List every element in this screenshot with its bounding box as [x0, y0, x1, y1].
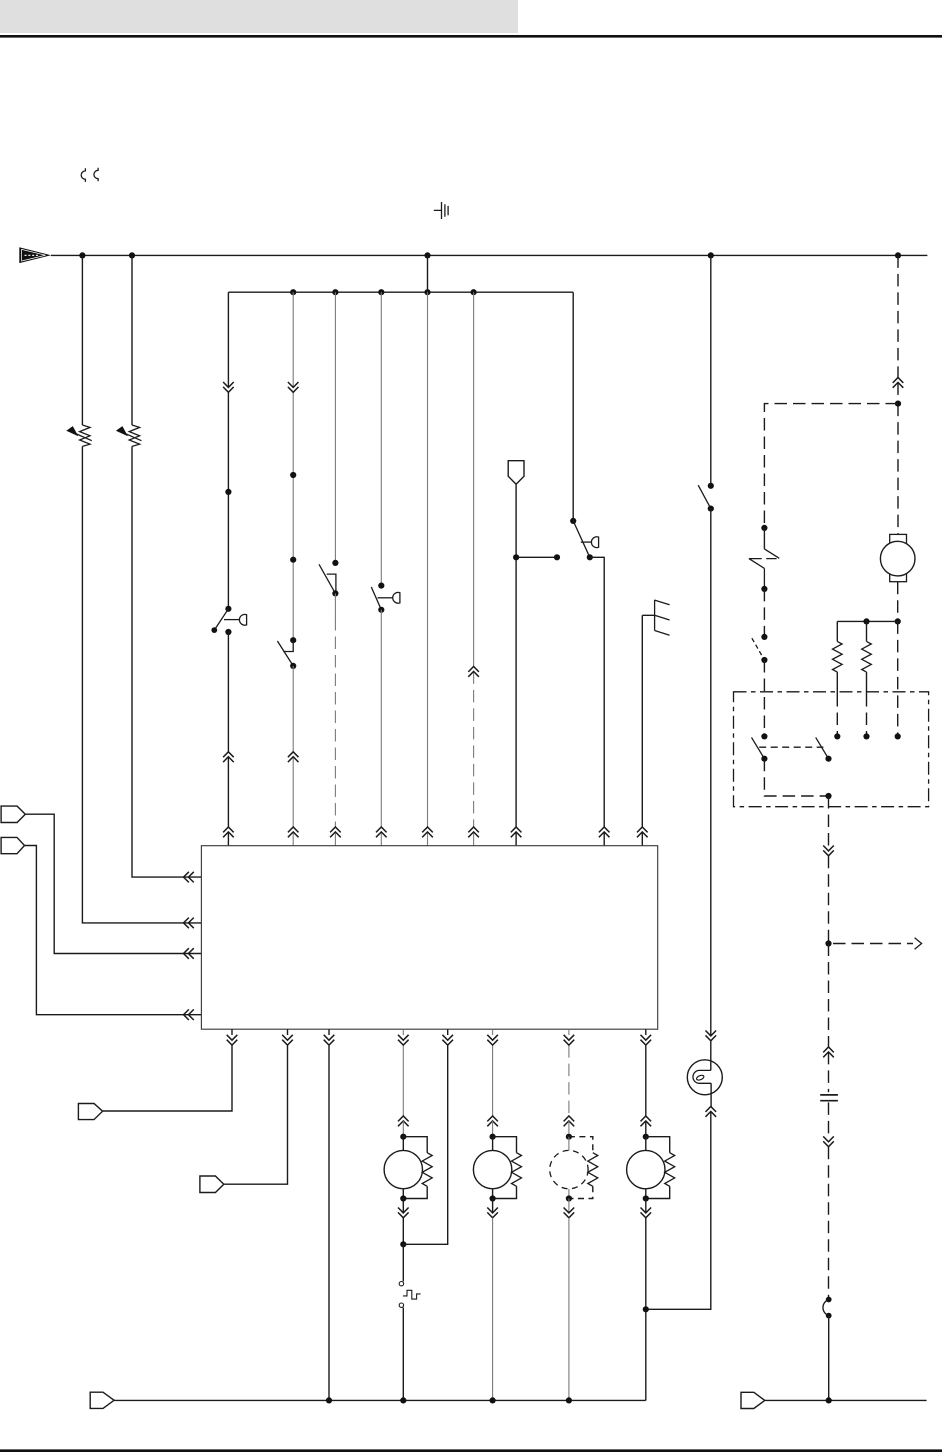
branch wire x381 lower — [380, 610, 382, 846]
junction dot x403 — [400, 1241, 406, 1247]
branch wire x335 upper — [334, 292, 336, 563]
connector chevron left row3 — [184, 948, 194, 959]
connector chevron up x381 — [376, 827, 387, 837]
resistor R2 — [862, 621, 872, 736]
motor V2 fresh air blower — [384, 1121, 432, 1202]
branch wire x335 lower dashed — [334, 593, 336, 845]
junction dots on second bus — [290, 289, 477, 295]
sensor branch wire x82 — [82, 255, 201, 923]
connector chevron up x427 — [422, 827, 433, 837]
wire x403 to junction — [402, 1218, 404, 1245]
connector chevrons up x228 — [223, 752, 234, 838]
output wire x329 — [328, 1029, 330, 1400]
resistor R1 — [833, 621, 843, 736]
branch wire x381 upper — [380, 292, 382, 585]
node dot below M5 — [895, 618, 901, 624]
linkage dashed — [759, 746, 823, 748]
junction dot bottom bus right — [826, 1397, 832, 1403]
dot x764 below breaker — [761, 586, 767, 592]
relay switch S8 — [752, 733, 768, 762]
ground symbol — [434, 202, 448, 219]
branch wire x573 from bus — [572, 292, 574, 521]
branch wire x228 upper — [227, 292, 229, 609]
top bus wire — [51, 254, 928, 256]
node dot relay out — [825, 793, 831, 799]
node dot x228 — [225, 489, 231, 495]
bottom bus left — [114, 1399, 646, 1401]
connector chevron up x604 — [599, 827, 610, 837]
connector plug P5 — [200, 1176, 224, 1193]
wire x711 to lamp — [710, 509, 712, 1071]
wire x828 to bottom bus — [828, 1316, 830, 1401]
connector plug P4 — [78, 1104, 102, 1120]
connector chevron down below motor V4 — [564, 1199, 575, 1218]
connector chevrons up x293 — [288, 752, 299, 838]
connector chevron down x329 — [324, 1035, 335, 1045]
connector chevron down x293 — [288, 382, 299, 392]
connector chevron down x228 — [223, 382, 234, 392]
connector chevrons up x473 — [468, 667, 479, 838]
junction dots on top bus — [79, 252, 901, 258]
branch wire x604 — [590, 557, 604, 845]
connector chevron down x492 — [487, 1035, 498, 1045]
connector plug P7 — [741, 1392, 765, 1408]
wire x645 to junction — [645, 1218, 647, 1401]
connector chevron up x492 — [487, 1116, 498, 1126]
branch wire x642 — [641, 615, 643, 845]
capacitor C1 — [820, 1095, 838, 1101]
motor V5 blower — [627, 1121, 675, 1202]
supply arrow terminal 30 — [19, 247, 51, 263]
connector chevron up x516 — [511, 827, 522, 837]
header bar — [0, 0, 518, 33]
fuse marker 1 — [81, 168, 85, 182]
connector chevron down below motor V2 — [398, 1199, 409, 1218]
wire x711 below lamp — [646, 1083, 711, 1309]
connector chevron down x287 — [282, 1035, 293, 1045]
dashed wire x898 into relay box — [897, 621, 899, 736]
pin dots in relay box — [834, 733, 901, 739]
sensor branch wire x132 — [132, 255, 201, 877]
switch S2 thermal contact — [277, 637, 296, 669]
connector chevron left row1 — [184, 872, 194, 883]
output wire x492 — [492, 1029, 494, 1116]
output wire x403 — [402, 1029, 404, 1116]
dashed wire below M5 — [897, 582, 899, 622]
lamp L1 — [687, 1060, 722, 1095]
connector chevron down x403 — [398, 1035, 409, 1045]
switch S5 pull contact — [570, 518, 598, 561]
dashed wire x764 into relay box — [763, 660, 765, 736]
output wire x568 dashed — [568, 1029, 570, 1116]
thermistor G1 — [66, 425, 92, 446]
connector chevron down x711 — [706, 1031, 717, 1041]
output wire x232 — [103, 1029, 232, 1111]
connector plug P3 — [508, 461, 524, 485]
resistor feed bar — [837, 620, 897, 622]
connector chevron left row4 — [184, 1009, 194, 1020]
dashed wire x828 below box — [828, 796, 830, 944]
relay switch S9 — [816, 737, 832, 761]
switch S7 contact — [752, 634, 768, 663]
connector chevron down x568 — [564, 1035, 575, 1045]
wire x492 to bottom bus — [492, 1218, 494, 1401]
branch wire x473 — [473, 292, 475, 846]
connector chevron down x447 — [442, 1029, 453, 1045]
thermal breaker F1 — [749, 549, 779, 589]
switch S4 push contact — [371, 583, 400, 613]
junction dots bottom bus — [326, 1397, 572, 1403]
output wire x287 — [224, 1029, 288, 1184]
connector chevron down x232 — [227, 1035, 238, 1045]
node dots x293 — [290, 472, 296, 563]
branch wire x228 lower — [227, 632, 229, 846]
connector plug P2 — [1, 837, 24, 853]
node dot resistor bar — [863, 618, 869, 624]
branch wire x293 upper — [292, 292, 294, 640]
motor M5 with brushes — [880, 534, 915, 581]
wire x568 to bottom bus — [568, 1218, 570, 1401]
bottom rule — [0, 1449, 942, 1452]
connector chevron left row2 — [184, 918, 194, 929]
output wire x645 — [645, 1029, 647, 1116]
connector chevron down x828 low — [823, 1136, 834, 1146]
connector chevron up x568 — [564, 1116, 575, 1126]
link wire x447 — [403, 1045, 447, 1244]
branch wire x711 — [710, 255, 712, 485]
dashed wire inside relay box — [764, 759, 828, 796]
motor V4 blower optional dashed — [550, 1121, 598, 1202]
dot x764 upper — [761, 525, 767, 531]
node dot x828 — [825, 940, 831, 946]
connector chevron up x828 — [823, 1047, 834, 1057]
control unit J301 box — [201, 846, 657, 1029]
dashed feed wire x898 — [897, 255, 899, 534]
switch S3 thermal contact — [319, 560, 339, 597]
heater element Z1 — [642, 600, 669, 636]
branch wire x293 lower — [292, 666, 294, 846]
connector plug P1 — [1, 806, 25, 822]
connector chevron down below motor V5 — [641, 1199, 652, 1218]
wire from P1 — [25, 814, 201, 953]
branch wire x516 — [516, 484, 557, 846]
dashed wire x828 mid — [828, 944, 830, 1093]
connector chevron up x642 — [637, 827, 648, 837]
relay box dash-dot enclosure — [734, 692, 929, 807]
connector chevron down below motor V3 — [487, 1199, 498, 1218]
motor V3 blower — [473, 1121, 521, 1202]
connector plug P6 — [90, 1392, 114, 1408]
thermistor G2 — [116, 425, 141, 446]
dashed wire x764 — [763, 589, 765, 637]
wire into breaker — [763, 528, 765, 549]
bottom bus right — [765, 1399, 927, 1401]
switch S6 contact — [698, 483, 714, 512]
connector chevron up x403 — [398, 1116, 409, 1126]
switch S1 pull contact — [211, 606, 246, 635]
connector chevron up x645 — [641, 1116, 652, 1126]
top rule — [0, 35, 942, 38]
connector chevron down x645 — [641, 1035, 652, 1045]
node dot x898 — [895, 401, 901, 407]
dashed arrow wire to right — [833, 938, 922, 950]
junction dot x645 — [643, 1306, 649, 1312]
dashed link wire to x764 — [764, 404, 898, 528]
dashed wire x828 lower — [828, 1102, 830, 1297]
connector chevron down x828 — [823, 846, 834, 856]
second bus wire — [228, 291, 573, 293]
wire from P2 — [25, 846, 202, 1015]
pulse contact switch — [399, 1244, 420, 1400]
connector chevron up x711 — [706, 1107, 717, 1117]
node dots x516 — [513, 554, 560, 560]
fuse marker 2 — [94, 168, 98, 182]
branch wire x427 — [427, 255, 429, 845]
connector chevron up x335 — [330, 827, 341, 837]
inline connector pair — [823, 1297, 832, 1319]
connector chevron up x898 — [893, 378, 904, 388]
